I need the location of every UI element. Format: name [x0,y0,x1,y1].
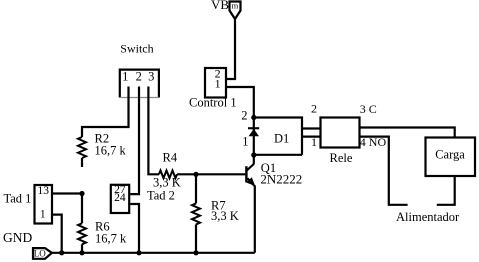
wire R2 bottom stub [81,158,83,167]
svg-text:1: 1 [122,69,128,83]
wire switch pin3 to R4 [148,87,159,175]
power node VBm connector [230,2,241,20]
wire Tad1 pin1 to rail [52,215,62,253]
svg-text:Tad 1: Tad 1 [4,192,32,206]
svg-text:3,3 K: 3,3 K [153,176,181,190]
svg-text:Carga: Carga [435,148,465,162]
wire relay pin 1 stub [301,136,322,138]
svg-text:1: 1 [40,209,46,221]
svg-text:Rele: Rele [330,151,353,165]
svg-text:GND: GND [3,230,32,245]
transistor Q1 emitter arrow [246,177,255,186]
switch box bottom edge [120,97,159,99]
svg-text:Alimentador: Alimentador [396,210,460,224]
wire Control1 pin1 to node A [226,87,254,117]
svg-text:3 C: 3 C [360,102,377,116]
transistor Q1 emitter lead [248,178,255,252]
wire Tad1 pin13 to R6 [52,194,82,224]
svg-text:2: 2 [311,102,317,116]
wire R7 bottom lead [195,224,197,252]
svg-text:2: 2 [136,69,142,83]
switch S1 box [120,70,159,98]
junction dot R6 to rail [79,250,84,255]
svg-text:16,7 k: 16,7 k [95,144,127,158]
svg-text:3,3 K: 3,3 K [211,209,239,223]
svg-text:2: 2 [241,109,247,123]
node B junction dot (collector node) [251,152,256,157]
relay K1 box [321,118,360,148]
node A junction dot (diode cathode node) [251,115,256,120]
svg-text:Tad 2: Tad 2 [147,189,175,203]
transistor Q1 collector lead [247,164,254,170]
resistor R7 zigzag [192,203,200,224]
svg-text:24: 24 [114,192,126,204]
svg-text:R4: R4 [163,151,178,165]
svg-text:1: 1 [311,135,317,149]
wire node B to relay vertical [254,154,302,156]
wire switch pin2 to Tad2 pin27 [130,87,139,195]
svg-text:13: 13 [37,185,49,197]
load box Carga [426,138,476,177]
svg-text:2N2222: 2N2222 [260,172,302,187]
wire base to R4 junction [177,173,245,175]
wire Tad2 pin24 to rail [130,204,139,253]
node C junction dot (base node) [193,172,198,177]
resistor R6 zigzag [78,223,86,244]
ground node LO connector [33,248,52,259]
wire R6 bottom lead [81,244,83,253]
svg-text:16,7 k: 16,7 k [95,232,127,246]
transistor Q1 base bar [245,166,247,182]
wire Carga bottom to Alimentador right stub [437,176,455,205]
wire R7 top lead [195,174,197,203]
svg-text:m: m [232,1,239,11]
junction dot Tad1 pin1 to rail [59,250,64,255]
svg-text:D1: D1 [274,132,289,146]
connector Tad 2 box [111,185,129,213]
svg-text:Switch: Switch [120,42,153,56]
svg-text:Control 1: Control 1 [189,96,237,110]
connector U2 Control 1 box [205,68,226,98]
svg-text:1: 1 [242,135,248,149]
junction dot pin13 corner [79,191,84,196]
diode D1 body wire [253,118,255,165]
wire node A to relay pin 2 [254,118,302,155]
svg-text:1: 1 [215,77,221,91]
connector Tad 1 box [35,185,53,224]
svg-text:3: 3 [148,69,154,83]
svg-text:LO: LO [34,249,46,259]
svg-text:VB: VB [211,0,229,12]
resistor R2 zigzag [78,137,86,158]
wire ground rail [52,252,255,254]
wire relay pin4 NO to Alimentador left stub [360,137,408,205]
wire relay pin3 C to Carga top [360,128,455,139]
wire VBm to Control1 pin 2 [226,19,235,79]
junction dot pin24 to rail [136,250,141,255]
wire relay pin 2 stub [301,127,322,129]
wire switch pin1 to R2 [82,87,129,138]
diode D1 cathode bar [248,127,259,129]
junction dot R7 to rail [193,250,198,255]
diode D1 triangle [249,129,259,136]
resistor R4 zigzag [159,171,177,179]
